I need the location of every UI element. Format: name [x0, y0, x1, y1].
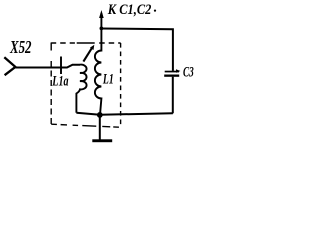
svg-text:К C1,C2: К C1,C2 — [107, 2, 152, 18]
svg-text:C3: C3 — [183, 65, 194, 81]
svg-text:X52: X52 — [9, 37, 31, 57]
svg-text:L1: L1 — [102, 72, 113, 88]
svg-text:L1a: L1a — [52, 74, 69, 90]
